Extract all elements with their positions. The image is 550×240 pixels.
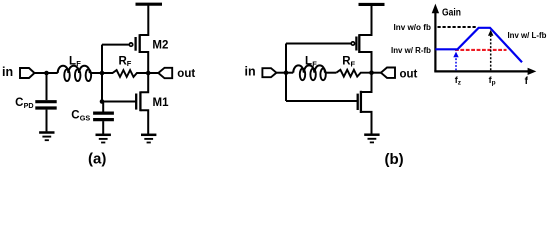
svg-text:F: F bbox=[127, 59, 132, 68]
svg-text:(b): (b) bbox=[385, 151, 404, 168]
svg-text:in: in bbox=[245, 65, 256, 79]
svg-text:Inv w/ L-fb: Inv w/ L-fb bbox=[508, 31, 547, 40]
svg-text:M2: M2 bbox=[152, 40, 168, 52]
svg-text:M1: M1 bbox=[153, 97, 170, 109]
svg-text:L: L bbox=[305, 55, 312, 67]
svg-text:out: out bbox=[400, 68, 418, 80]
svg-text:Inv w/o fb: Inv w/o fb bbox=[394, 23, 432, 32]
svg-text:(a): (a) bbox=[88, 150, 106, 167]
svg-text:GS: GS bbox=[80, 113, 91, 122]
svg-text:Gain: Gain bbox=[442, 7, 461, 18]
svg-text:C: C bbox=[71, 109, 79, 121]
svg-text:Inv w/ R-fb: Inv w/ R-fb bbox=[391, 46, 431, 55]
svg-text:F: F bbox=[351, 59, 356, 68]
svg-text:L: L bbox=[69, 55, 76, 67]
svg-text:C: C bbox=[15, 97, 23, 109]
svg-text:F: F bbox=[76, 59, 81, 68]
svg-text:out: out bbox=[177, 68, 195, 80]
svg-text:z: z bbox=[458, 80, 462, 87]
svg-text:p: p bbox=[492, 80, 496, 87]
svg-text:in: in bbox=[2, 65, 13, 79]
svg-text:PD: PD bbox=[24, 101, 35, 110]
svg-text:F: F bbox=[312, 59, 317, 68]
svg-text:f: f bbox=[525, 76, 529, 87]
